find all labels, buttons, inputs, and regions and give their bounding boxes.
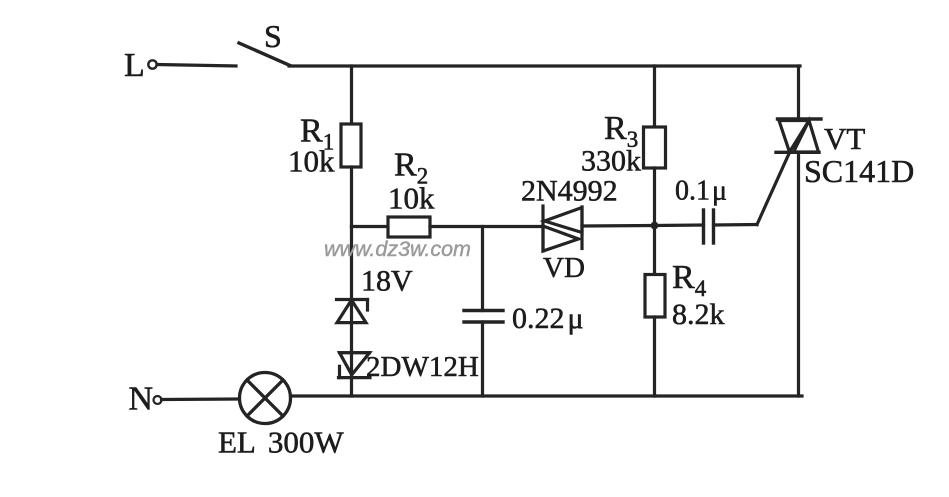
terminal N [129,381,162,418]
resistor R3 [581,110,666,178]
svg-text:S: S [264,18,282,54]
triac VT SC141D [776,119,914,189]
capacitor C2 0.1u [675,176,727,244]
wire bottom rail [291,394,803,397]
wire R3 to node [653,168,656,226]
wire node to R4 [653,226,656,275]
wire capacitor C1 to bottom rail [481,322,484,396]
svg-text:EL300W: EL300W [218,425,344,460]
wire rail to triac top [797,66,800,119]
lamp EL 300W [218,373,344,460]
wire R4 to bottom rail [653,317,656,396]
svg-text:R4: R4 [672,259,707,301]
svg-text:VD: VD [543,252,585,284]
zener D2 2DW12H [339,351,479,383]
terminal L [124,47,157,84]
resistor R2 [388,147,435,238]
svg-text:0.1μ: 0.1μ [675,176,727,207]
resistor R4 [645,259,725,331]
resistor R1 [288,113,361,179]
node junction dot [651,222,659,230]
wire top rail [289,64,800,67]
wire node to capacitor C2 [655,223,704,227]
svg-text:2DW12H: 2DW12H [366,351,479,383]
wire zener chain [350,227,353,397]
svg-text:8.2k: 8.2k [672,298,725,331]
wire C2 to gate bend [714,223,758,227]
svg-text:N: N [129,381,154,418]
svg-text:www.dz3w.com: www.dz3w.com [324,237,471,261]
wire diac to node [582,224,655,228]
svg-text:10k: 10k [388,181,435,216]
zener D1 18V [337,265,414,323]
svg-text:SC141D: SC141D [804,153,914,189]
diac VD 2N4992 [521,175,618,285]
wire node to R2 [352,225,389,228]
wire R1 top [350,66,353,124]
wire gate diagonal [757,153,790,225]
switch S [239,18,290,66]
wire R3 top [653,66,656,127]
wire triac bottom to rail [797,152,800,396]
svg-text:10k: 10k [288,144,335,179]
svg-text:VT: VT [824,121,865,156]
wire R2 to diac [430,225,543,228]
svg-text:18V: 18V [361,265,413,298]
wire mid to capacitor C1 [481,227,484,311]
svg-text:2N4992: 2N4992 [521,175,618,208]
wire L lead [157,65,236,67]
svg-text:L: L [124,47,145,84]
svg-text:330k: 330k [581,145,641,178]
capacitor C1 0.22u [464,302,584,335]
svg-text:0.22μ: 0.22μ [512,302,584,335]
wire R1 bottom to node [350,167,353,227]
wire N lead [162,397,240,401]
